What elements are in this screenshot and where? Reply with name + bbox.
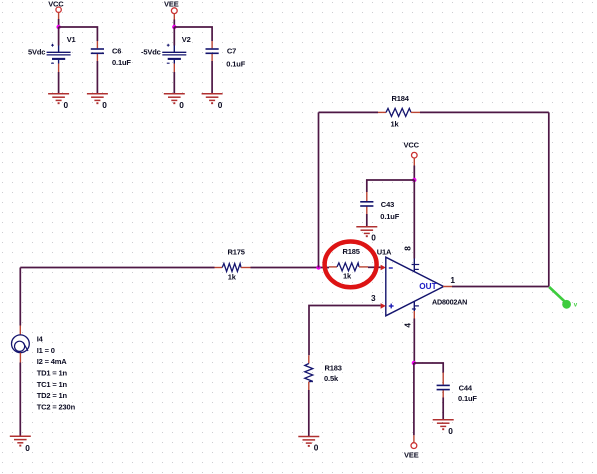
svg-text:C44: C44 [459, 384, 473, 393]
wire VCC to junction (op-amp) [413, 166, 415, 181]
wire pin4 down [413, 319, 415, 364]
wire junction down to V1 [58, 27, 60, 46]
ground 0 under C43 [356, 227, 377, 236]
power symbol VEE (top) [164, 0, 179, 20]
svg-text:0.1uF: 0.1uF [112, 58, 131, 67]
svg-text:R185: R185 [343, 247, 360, 256]
svg-text:TD2 = 1n: TD2 = 1n [37, 391, 68, 400]
svg-text:AD8002AN: AD8002AN [432, 298, 467, 307]
resistor R185 [329, 263, 368, 271]
power symbol VCC (op-amp) [404, 141, 420, 166]
svg-text:5Vdc: 5Vdc [28, 47, 45, 56]
ground 0 under R183 [298, 437, 319, 446]
junction dot at VEE rail [172, 25, 176, 29]
svg-text:V1: V1 [67, 35, 76, 44]
junction dot at VCC rail [56, 25, 60, 29]
ground 0 under C7 [202, 94, 223, 103]
wire junction to C44 [414, 363, 443, 373]
pin arrow inverting input [381, 265, 386, 271]
svg-text:1k: 1k [343, 272, 352, 281]
capacitor C44 [437, 385, 450, 389]
ground 0 under V2 [164, 94, 185, 103]
minus sign [389, 267, 393, 269]
svg-text:0.1uF: 0.1uF [458, 394, 477, 403]
wire VEE to junction [173, 20, 175, 28]
svg-text:0: 0 [179, 100, 184, 110]
capacitor C43 pins [366, 192, 368, 214]
svg-text:R183: R183 [325, 364, 342, 373]
svg-text:V2: V2 [182, 35, 191, 44]
pin 4 red stub [413, 311, 415, 319]
wire junction to C43 [367, 180, 415, 192]
capacitor C43 [360, 202, 373, 206]
wire VCC rail to C6 [59, 27, 98, 41]
power pin tick marks pin 4 [412, 306, 419, 309]
wire junction down to VEE [413, 363, 415, 435]
power symbol VCC (top left) [48, 0, 64, 19]
svg-text:v: v [574, 302, 578, 309]
ground 0 under C44 [433, 420, 454, 429]
voltage probe marker (green) [549, 287, 578, 309]
annotation red ellipse around R185 [325, 242, 377, 288]
voltage source V2 [162, 44, 186, 72]
wire I4 to ground [19, 363, 21, 436]
wire VEE rail to C7 [174, 27, 212, 41]
svg-text:1k: 1k [228, 273, 237, 282]
capacitor C7 pins [211, 41, 213, 61]
ground 0 under C6 [87, 94, 108, 103]
feedback wire top right segment [420, 111, 549, 113]
wire R175 to junction [251, 267, 330, 269]
svg-text:0: 0 [64, 100, 69, 110]
svg-text:R184: R184 [392, 94, 410, 103]
wire to pin 3 [309, 306, 381, 356]
wire R183 to ground [308, 390, 310, 436]
svg-text:VEE: VEE [164, 0, 179, 8]
wire input net horizontal [20, 267, 214, 269]
feedback wire left vertical [318, 112, 320, 267]
current source I4 [12, 326, 30, 363]
svg-text:0: 0 [448, 426, 453, 436]
op-amp U1A triangle [386, 257, 444, 316]
wire VCC junction down to pin 8 [413, 180, 415, 259]
svg-text:-5Vdc: -5Vdc [141, 47, 161, 56]
svg-text:3: 3 [371, 293, 376, 303]
wire R185 to op-amp [368, 266, 381, 268]
capacitor C44 pins [442, 373, 444, 398]
output wire [452, 286, 549, 288]
svg-text:I4: I4 [37, 335, 44, 344]
resistor R175 [215, 264, 251, 272]
wire input net corner down to I4 [19, 268, 21, 326]
svg-text:8: 8 [403, 246, 413, 251]
svg-text:R175: R175 [228, 248, 245, 257]
svg-text:0.1uF: 0.1uF [226, 59, 245, 68]
power pin tick marks pin 8 [412, 265, 420, 270]
ground 0 under V1 [48, 94, 69, 103]
svg-text:TC1 = 1n: TC1 = 1n [37, 380, 68, 389]
svg-text:U1A: U1A [377, 248, 392, 257]
svg-text:TD1 = 1n: TD1 = 1n [37, 369, 68, 378]
svg-text:VCC: VCC [404, 141, 420, 150]
ground 0 under I4 [10, 436, 31, 445]
output pin 1 lead [443, 286, 452, 288]
svg-text:VCC: VCC [48, 0, 64, 8]
capacitor C7 [206, 49, 219, 53]
svg-text:TC2 = 230n: TC2 = 230n [37, 402, 76, 411]
svg-text:0: 0 [25, 443, 30, 453]
svg-text:0: 0 [371, 232, 376, 242]
svg-text:1k: 1k [391, 120, 400, 129]
svg-text:C7: C7 [227, 47, 236, 56]
op-amp V- pin 4 lead [413, 301, 415, 311]
wire C43 to ground [366, 214, 368, 227]
capacitor C6 [91, 49, 104, 53]
wire junction down to V2 [173, 27, 175, 46]
pin arrow non-inverting input [381, 303, 386, 309]
wire C6 to ground [96, 61, 98, 94]
svg-text:0.5k: 0.5k [324, 374, 339, 383]
voltage source V1 [47, 44, 71, 72]
svg-text:C43: C43 [381, 200, 394, 209]
wire C7 to ground [211, 61, 213, 94]
junction dot VCC branch [412, 178, 416, 182]
svg-text:I2 = 4mA: I2 = 4mA [37, 357, 68, 366]
svg-text:I1 = 0: I1 = 0 [37, 346, 55, 355]
junction dot pin4 branch [412, 361, 416, 365]
resistor R184 [378, 108, 420, 116]
wire V1 to ground [58, 72, 60, 94]
svg-text:4: 4 [403, 323, 413, 328]
svg-text:C6: C6 [112, 47, 121, 56]
wire C44 to ground [442, 398, 444, 420]
svg-text:0: 0 [314, 443, 319, 453]
resistor R183 [305, 355, 313, 390]
svg-text:1: 1 [450, 275, 455, 285]
plus sign [389, 304, 394, 309]
svg-text:0: 0 [102, 100, 107, 110]
power symbol VEE (bottom) [404, 435, 419, 459]
feedback wire top left segment [319, 111, 379, 113]
op-amp V+ pin 8 lead [413, 259, 415, 272]
feedback wire right vertical [548, 112, 550, 286]
svg-text:0.1uF: 0.1uF [380, 212, 399, 221]
svg-text:0: 0 [218, 100, 223, 110]
wire VCC to junction [58, 19, 60, 27]
capacitor C6 pins [96, 41, 98, 61]
junction dot feedback/input [316, 265, 320, 269]
svg-text:OUT: OUT [419, 282, 436, 291]
svg-text:VEE: VEE [404, 451, 419, 460]
wire V2 to ground [173, 72, 175, 94]
